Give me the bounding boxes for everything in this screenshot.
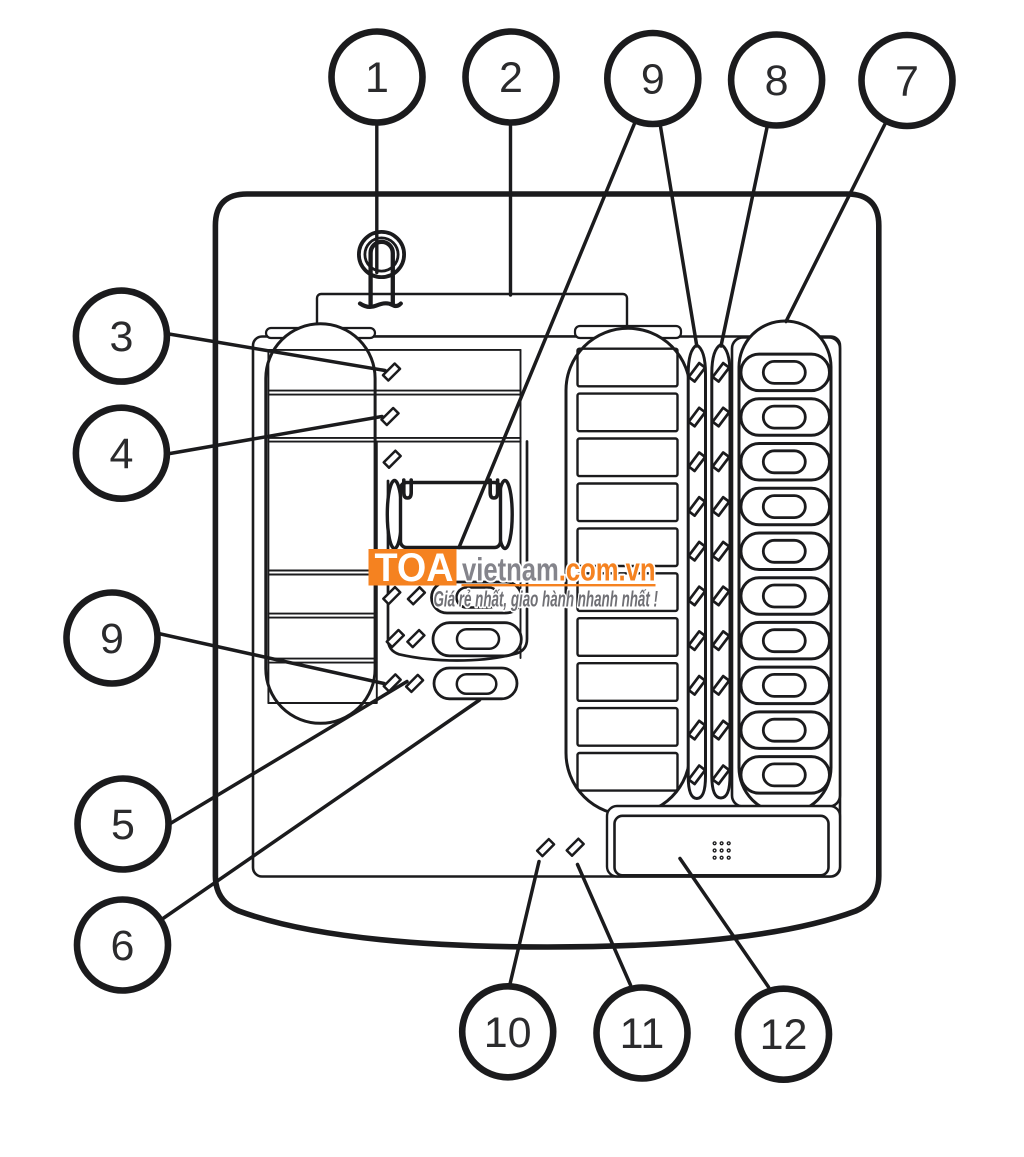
callout circle 8 [731, 35, 822, 126]
hanging hook stirrup [371, 242, 393, 304]
LED indicator mark 1 [383, 364, 400, 381]
leader line 2 [509, 126, 512, 295]
hanging hook ring outer [359, 232, 404, 277]
svg-text:vietnam.com.vn: vietnam.com.vn [462, 552, 656, 588]
LED pair 3 left [384, 674, 401, 691]
LED marks column 1 [689, 363, 706, 784]
callout circle 9 left [67, 593, 158, 684]
watermark TOA logo box [369, 549, 457, 586]
leader line 5 [170, 682, 408, 825]
svg-text:2: 2 [499, 54, 523, 102]
svg-text:5: 5 [111, 801, 135, 849]
row divider 1 (double) [268, 390, 520, 392]
svg-text:6: 6 [111, 922, 135, 970]
left label strip top tab [266, 328, 375, 338]
leader line 3 [169, 334, 385, 371]
leader line 10 [510, 862, 539, 985]
right button frame [732, 338, 840, 807]
LED marks column 2 [713, 363, 730, 784]
handset rest right pad [498, 481, 512, 549]
LED indicator mark 3 [384, 451, 401, 468]
LED lens column 2 [712, 345, 730, 798]
svg-text:8: 8 [765, 57, 789, 105]
svg-text:Giá rẻ nhất, giao hành nhanh n: Giá rẻ nhất, giao hành nhanh nhất ! [434, 587, 659, 612]
bottom LED mark right [567, 839, 584, 856]
card top edge [268, 349, 520, 351]
leader line 4 [170, 417, 382, 454]
callout circle 5 [78, 779, 169, 870]
callout circle 7 [862, 35, 953, 126]
speaker grille box [615, 816, 829, 876]
callout circle 1 [332, 32, 423, 123]
svg-text:9: 9 [641, 56, 665, 104]
leader line 9 left [159, 634, 385, 684]
callout circle 2 [466, 32, 557, 123]
svg-text:7: 7 [895, 58, 919, 106]
right button capsule [739, 321, 831, 814]
leader line 1 [375, 126, 378, 273]
card left edge [267, 350, 269, 703]
callout circle 9 top [607, 33, 698, 124]
LED pair 3 right [406, 675, 423, 692]
handset capsule (left) [266, 324, 375, 724]
callout circle 12 [738, 989, 829, 1080]
card right edge [520, 350, 522, 658]
row divider 3 (double) [268, 570, 376, 572]
callout circle 3 [76, 291, 167, 382]
top handle bar [317, 294, 627, 337]
hanging hook ring inner [365, 238, 398, 271]
speaker grille dots [713, 841, 731, 860]
svg-text:1: 1 [365, 54, 389, 102]
LED pair 1 right [408, 587, 425, 604]
LED pair 2 right [407, 630, 424, 647]
label card grid [268, 350, 520, 703]
svg-text:11: 11 [620, 1010, 665, 1058]
selector buttons column [741, 354, 830, 793]
callout circle 4 [76, 408, 167, 499]
hanging hook foot [360, 303, 401, 307]
console button 1 [432, 582, 522, 613]
svg-text:4: 4 [109, 430, 133, 478]
console button 3 (monitor) [434, 668, 517, 699]
row divider 2 (double) [268, 437, 520, 439]
bottom LED mark left [537, 839, 554, 856]
leader line 9 top B [661, 127, 697, 347]
main front panel [253, 337, 840, 877]
leader line 6 [163, 700, 480, 919]
handset rest hook tab right [490, 480, 497, 498]
card bottom edge [268, 702, 376, 704]
device body outline [215, 194, 878, 947]
speaker enclosure [607, 806, 840, 877]
selector button inner keys [763, 361, 805, 786]
console button 2 [433, 623, 521, 656]
callout circle 6 [77, 900, 168, 991]
center selector label capsule [566, 328, 690, 815]
LED pair 1 left [383, 587, 400, 604]
center label strip top tab [575, 326, 681, 338]
leader line 7 [786, 124, 885, 322]
leader line 12 [680, 859, 769, 988]
handset rest left pad [387, 481, 401, 549]
svg-text:TOA: TOA [375, 546, 454, 590]
svg-text:9: 9 [100, 615, 124, 663]
svg-text:3: 3 [109, 313, 133, 361]
LED indicator mark 2 [382, 408, 399, 425]
svg-text:10: 10 [484, 1009, 532, 1057]
leader line 9 top A [459, 124, 635, 548]
watermark underline [462, 584, 656, 586]
LED pair 2 left [387, 630, 404, 647]
callout circle 10 [462, 986, 553, 1077]
LED lens column 1 [688, 345, 705, 799]
row divider 4 (double) [268, 613, 376, 615]
callout numbers [100, 54, 919, 1059]
handset rest hook tab left [404, 480, 411, 498]
callout circles [67, 32, 953, 1080]
card inner vertical divider [376, 442, 378, 703]
leader line 11 [578, 865, 631, 986]
center label cells [578, 349, 678, 791]
leader line 8 [721, 128, 767, 347]
callout circle 11 [597, 988, 688, 1079]
row divider 5 (double) [268, 658, 376, 660]
svg-text:12: 12 [760, 1011, 808, 1059]
console recess outline [388, 442, 527, 661]
handset rest plate [401, 483, 501, 548]
